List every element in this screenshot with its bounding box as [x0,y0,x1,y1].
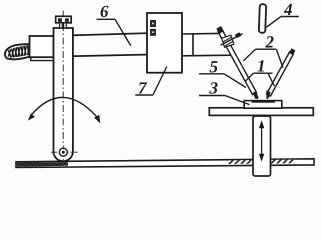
weld seam on specimen [252,101,276,103]
rod top cap [289,48,295,55]
box buttons [151,21,156,27]
horizontal arm (item 6) [52,33,147,56]
label 5 [199,61,246,87]
table (item 3) [209,108,313,116]
base plate hatch section left of column [227,160,253,164]
pivot axis centerline [51,151,78,153]
label 3 [199,82,250,104]
swing arc arrow [32,97,97,116]
arm sleeve block [30,36,54,57]
label 7 [135,67,167,96]
up-down double arrow [259,120,264,162]
hose cross hatch [8,45,29,57]
base plate hatched left end [17,162,68,167]
electrode tip right (item 1) [266,90,270,99]
pivot pin [59,148,67,156]
table support column [253,116,271,176]
electrode tip left (item 1) [253,91,259,99]
clamp bolt on post top [56,16,71,28]
hose [5,44,30,59]
rod top cap [216,26,224,34]
label 4 [266,4,299,27]
post centerline (dash-dot) [62,11,64,161]
right electrode holder rod (item 2) [266,48,295,99]
label 1 [245,60,274,86]
left electrode holder rod (item 2) [216,26,258,99]
label 6 [97,6,131,46]
arm stub right of box [182,33,232,55]
control box (item 7) [147,13,182,73]
base plate [16,159,314,168]
bolt head wings [58,18,62,21]
pivot post [54,28,73,161]
label 2 [243,36,283,68]
base plate hatch section right of column [271,160,295,164]
specimen block (item 5) [244,101,282,109]
sleeve lower lip [31,57,54,60]
clamp on holder rod [221,32,243,47]
filler rod icon (item 4) [259,4,266,33]
